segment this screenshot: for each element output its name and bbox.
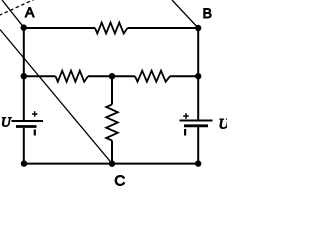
resistor R3 (row2 right) <box>135 71 170 82</box>
node A junction dot <box>21 24 27 30</box>
wire row2 left <box>24 75 56 77</box>
resistor R1 (top) <box>95 23 128 34</box>
battery U1 minus tick <box>34 130 36 136</box>
construction line left to node C <box>0 30 112 164</box>
battery U1 negative plate <box>16 125 37 128</box>
junction dot row2 right <box>195 73 201 79</box>
node C junction dot <box>109 161 115 167</box>
wire right vertical battery U2 to bottom <box>197 127 199 164</box>
wire row2 right <box>170 75 198 77</box>
battery U2 minus tick <box>184 129 186 136</box>
svg-text:A: A <box>25 4 35 20</box>
svg-text:U: U <box>219 117 228 133</box>
wire middle vertical node to R4 <box>111 76 113 104</box>
construction line top-left <box>2 0 24 27</box>
battery U2 negative plate <box>184 124 208 127</box>
node B junction dot <box>195 25 201 31</box>
svg-text:C: C <box>114 172 125 189</box>
battery U1 positive plate <box>12 120 44 122</box>
svg-text:U: U <box>1 115 12 130</box>
wire middle vertical R4 to node C <box>111 141 113 164</box>
wire top A to R1 <box>24 27 95 29</box>
resistor R2 (row2 left) <box>56 71 89 82</box>
wire left vertical A to battery U1 <box>23 28 25 121</box>
resistor R4 (middle vertical) <box>106 105 118 141</box>
dashed construction line top-left <box>0 0 34 15</box>
wire top R1 to B <box>128 27 199 29</box>
svg-text:B: B <box>203 5 212 21</box>
battery U2 plus sign <box>183 113 189 119</box>
wire bottom <box>24 163 198 165</box>
battery U2 positive plate <box>180 120 213 122</box>
wire right vertical B to battery U2 <box>197 28 199 120</box>
battery U1 plus sign <box>32 111 38 117</box>
junction dot bottom right <box>195 160 201 166</box>
junction dot bottom left <box>21 160 27 166</box>
wire row2 middle <box>88 75 135 77</box>
wire left vertical battery U1 to bottom <box>23 128 25 164</box>
junction dot row2 middle <box>109 73 115 79</box>
construction line top to node B <box>172 0 198 28</box>
junction dot row2 left <box>21 73 27 79</box>
